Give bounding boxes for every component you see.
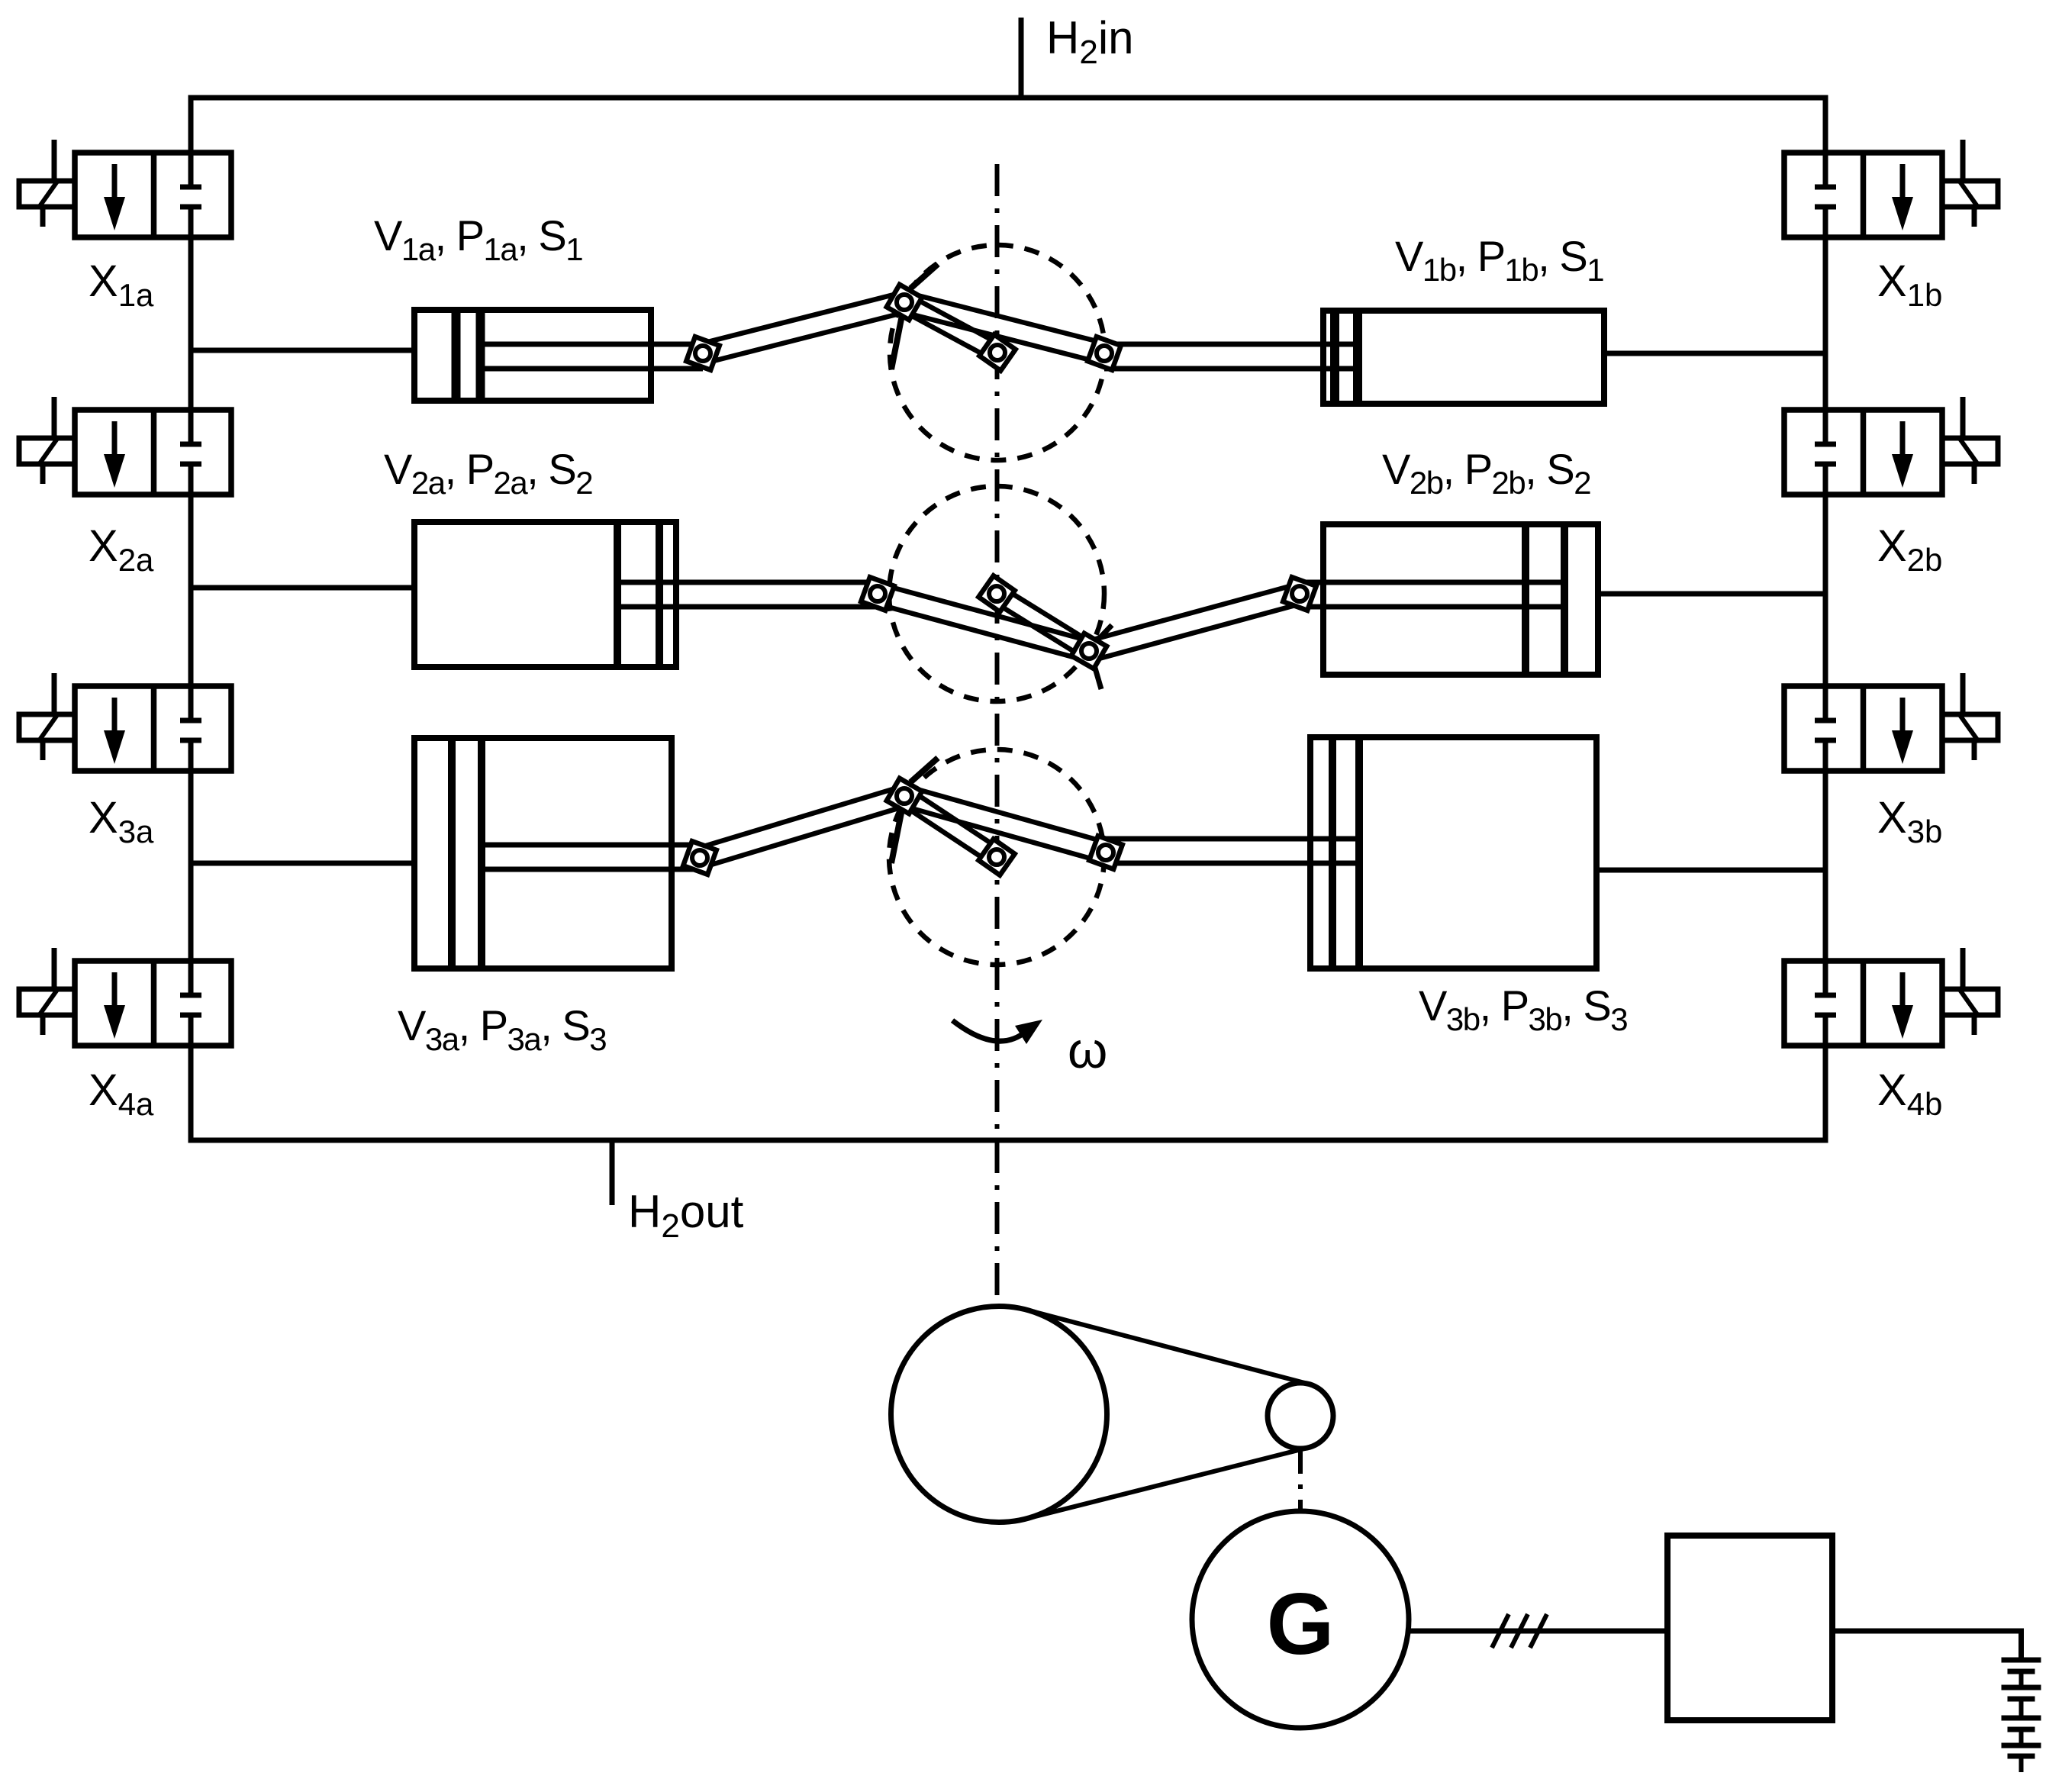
svg-text:X4b: X4b bbox=[1877, 1065, 1942, 1122]
valve X4a body bbox=[75, 961, 231, 1046]
cylinder V2a piston bbox=[617, 525, 659, 664]
pipe to cylinder V1a bbox=[191, 348, 414, 353]
svg-text:V2a, P2a, S2: V2a, P2a, S2 bbox=[384, 445, 592, 501]
pipe to cylinder V3b bbox=[1596, 868, 1825, 873]
valve X4b blocked ports bbox=[1815, 961, 1836, 1046]
valve X4a actuator bbox=[19, 948, 75, 1035]
rod-end pin row 1 right bbox=[1087, 337, 1121, 370]
rod-end pin row 2 left bbox=[861, 577, 894, 611]
pipe to cylinder V2b bbox=[1598, 591, 1825, 597]
wire right bus segment 3 bbox=[1823, 495, 1828, 686]
crank pin row 1 bbox=[887, 285, 922, 320]
rod-end pin row 2 right bbox=[1283, 577, 1316, 611]
valve X2a body bbox=[75, 410, 231, 495]
valve X2b actuator bbox=[1942, 397, 1998, 484]
valve X2a actuator bbox=[19, 397, 75, 484]
crank row 3 dashed circle bbox=[889, 749, 1104, 965]
generator G bbox=[1192, 1511, 1409, 1728]
valve X3a body bbox=[75, 686, 231, 771]
crank arm row 3 bbox=[891, 783, 1001, 864]
cylinder V2a body bbox=[414, 522, 676, 667]
wire right bus segment 4 bbox=[1823, 771, 1828, 961]
crank row 1 dashed circle bbox=[890, 245, 1105, 460]
valve X3b body bbox=[1784, 686, 1942, 771]
valve X1a body bbox=[75, 153, 231, 237]
valve X2b flow arrow bbox=[1892, 421, 1913, 488]
wire left bus segment 1 bbox=[188, 98, 194, 153]
cylinder V2b body bbox=[1323, 524, 1598, 675]
valve X1b flow arrow bbox=[1892, 164, 1913, 230]
valve X4a blocked ports bbox=[180, 961, 201, 1046]
wire converter to battery bbox=[1832, 1629, 2024, 1661]
svg-text:V1b, P1b, S1: V1b, P1b, S1 bbox=[1395, 232, 1603, 288]
pipe to cylinder V1b bbox=[1604, 351, 1825, 356]
cylinder V2b piston rod bbox=[1300, 582, 1564, 607]
svg-text:ω: ω bbox=[1068, 1022, 1107, 1079]
cylinder V3b piston bbox=[1332, 740, 1359, 965]
valve X2b body bbox=[1784, 410, 1942, 495]
valve X2a flow arrow bbox=[104, 421, 125, 488]
crank pin guide marks row 2 bbox=[1093, 625, 1112, 689]
battery bbox=[2002, 1660, 2041, 1772]
svg-text:V1a, P1a, S1: V1a, P1a, S1 bbox=[374, 211, 582, 267]
crank pin row 2 bbox=[1071, 633, 1107, 669]
svg-text:G: G bbox=[1267, 1576, 1335, 1673]
large pulley bbox=[891, 1307, 1107, 1523]
cylinder V2b piston bbox=[1526, 527, 1564, 672]
valve X3a flow arrow bbox=[104, 698, 125, 764]
connecting link row 3 left bbox=[693, 785, 915, 869]
crank row 2 dashed circle bbox=[889, 486, 1104, 701]
wire left bus segment 3 bbox=[188, 495, 194, 686]
cylinder V2a piston rod bbox=[618, 582, 878, 607]
rod-end pin row 1 left bbox=[686, 337, 720, 370]
belt bbox=[1026, 1310, 1309, 1519]
valve X3a actuator bbox=[19, 673, 75, 760]
crankshaft axis dash-dot centreline bbox=[995, 164, 1000, 1306]
valve X4b body bbox=[1784, 961, 1942, 1046]
cylinder V1a piston rod bbox=[480, 344, 703, 369]
svg-text:V3a, P3a, S3: V3a, P3a, S3 bbox=[398, 1001, 606, 1057]
cylinder V3a piston rod bbox=[482, 845, 700, 869]
wire generator to converter bbox=[1409, 1629, 1667, 1634]
svg-text:X1a: X1a bbox=[89, 256, 154, 313]
svg-text:X3a: X3a bbox=[89, 793, 154, 849]
wire H2 inlet stub bbox=[1019, 18, 1024, 100]
svg-text:X1b: X1b bbox=[1877, 256, 1942, 313]
valve X4b flow arrow bbox=[1892, 972, 1913, 1039]
wire H2 outlet stub bbox=[610, 1140, 615, 1205]
valve X2a blocked ports bbox=[180, 410, 201, 495]
generator axis dash-dot bbox=[1298, 1451, 1303, 1510]
wire right bus segment 2 bbox=[1823, 237, 1828, 410]
valve X1b body bbox=[1784, 153, 1942, 237]
connecting link row 2 right bbox=[1079, 583, 1306, 662]
three-phase slashes bbox=[1492, 1614, 1547, 1648]
wire left bus segment 4 bbox=[188, 771, 194, 961]
wire right bus segment 5 bbox=[1823, 1046, 1828, 1143]
cylinder V3a piston bbox=[452, 741, 482, 965]
wire right bus segment 1 bbox=[1823, 98, 1828, 153]
valve X4b actuator bbox=[1942, 948, 1998, 1035]
connecting link row 2 left bbox=[871, 583, 1099, 662]
valve X3b actuator bbox=[1942, 673, 1998, 760]
crank pin row 3 bbox=[887, 778, 922, 814]
valve X1b actuator bbox=[1942, 140, 1998, 227]
valve X3a blocked ports bbox=[180, 686, 201, 771]
connecting link row 3 right bbox=[894, 785, 1113, 863]
svg-text:H2in: H2in bbox=[1046, 12, 1134, 71]
rod-end pin row 3 right bbox=[1089, 836, 1123, 869]
svg-text:V3b, P3b, S3: V3b, P3b, S3 bbox=[1419, 981, 1627, 1037]
converter box bbox=[1667, 1536, 1832, 1720]
wire left bus segment 2 bbox=[188, 237, 194, 410]
crank arm row 1 bbox=[891, 290, 1002, 360]
cylinder V3a body bbox=[414, 738, 672, 969]
small pulley bbox=[1268, 1383, 1333, 1449]
crankshaft centre pivot row 2 bbox=[978, 575, 1014, 611]
crankshaft centre pivot row 1 bbox=[979, 334, 1015, 370]
cylinder V3b body bbox=[1310, 737, 1596, 969]
rod-end pin row 3 left bbox=[683, 841, 717, 875]
crank pin guide marks row 1 bbox=[891, 264, 938, 369]
valve X1a actuator bbox=[19, 140, 75, 227]
svg-text:X2b: X2b bbox=[1877, 521, 1942, 578]
valve X1a blocked ports bbox=[180, 153, 201, 237]
valve X3b flow arrow bbox=[1892, 698, 1913, 764]
valve X3b blocked ports bbox=[1815, 686, 1836, 771]
cylinder V3b piston rod bbox=[1106, 839, 1358, 863]
crank arm row 2 bbox=[992, 587, 1103, 664]
valve X4a flow arrow bbox=[104, 972, 125, 1039]
crankshaft centre pivot row 3 bbox=[978, 839, 1014, 875]
pipe to cylinder V2a bbox=[191, 585, 414, 591]
cylinder V1b piston rod bbox=[1104, 344, 1358, 369]
svg-text:X4a: X4a bbox=[89, 1065, 154, 1122]
wire left bus segment 5 bbox=[188, 1046, 194, 1143]
valve X1b blocked ports bbox=[1815, 153, 1836, 237]
wire top supply bus bbox=[188, 95, 1828, 101]
valve X1a flow arrow bbox=[104, 164, 125, 230]
wire bottom exhaust bus bbox=[188, 1138, 1828, 1143]
valve X2b blocked ports bbox=[1815, 410, 1836, 495]
cylinder V1b piston bbox=[1335, 314, 1358, 401]
cylinder V1a body bbox=[414, 310, 651, 401]
connecting link row 1 left bbox=[696, 291, 914, 364]
svg-text:H2out: H2out bbox=[628, 1186, 744, 1245]
rotation arrow bbox=[952, 1020, 1042, 1044]
pipe to cylinder V3a bbox=[191, 861, 414, 866]
connecting link row 1 right bbox=[894, 291, 1111, 364]
cylinder V1b body bbox=[1323, 311, 1604, 404]
crank pin guide marks row 3 bbox=[891, 758, 938, 863]
svg-text:X3b: X3b bbox=[1877, 793, 1942, 849]
cylinder V1a piston bbox=[456, 313, 481, 398]
svg-text:X2a: X2a bbox=[89, 521, 154, 578]
svg-text:V2b, P2b, S2: V2b, P2b, S2 bbox=[1382, 445, 1590, 501]
